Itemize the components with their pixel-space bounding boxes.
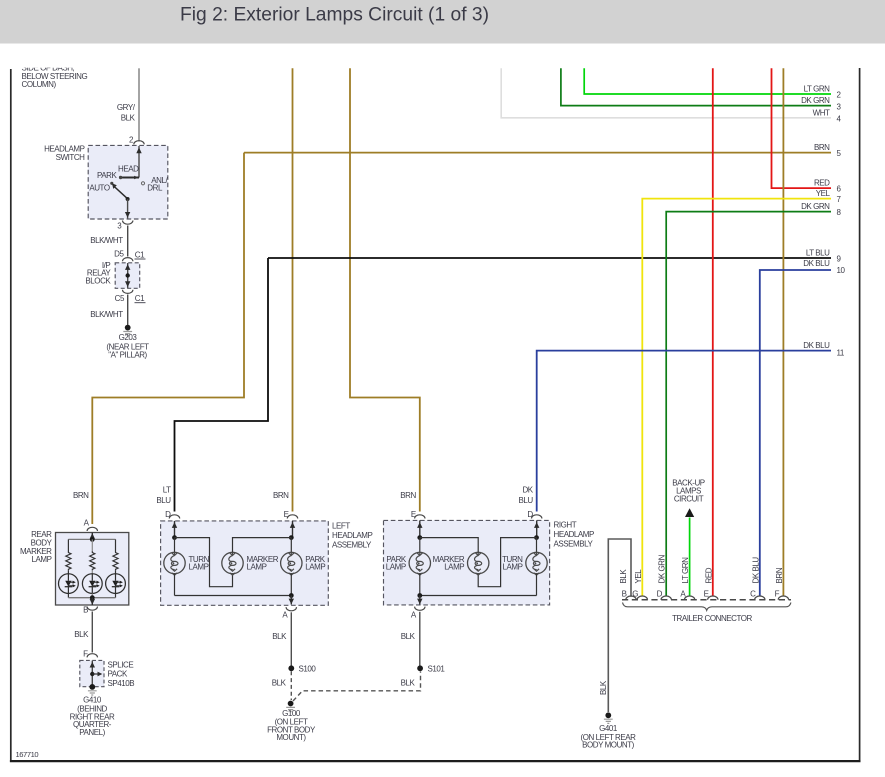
svg-text:DK BLU: DK BLU (803, 341, 830, 350)
wire dashed ground link G100 to S101 (293, 672, 421, 702)
wire marker top to park junction (233, 538, 292, 553)
trailer pin G arc (637, 596, 647, 600)
arrow to back-up lamps circuit (685, 508, 694, 517)
svg-text:DK BLU: DK BLU (803, 259, 830, 268)
svg-text:LAMP: LAMP (305, 563, 325, 572)
splice junction dot with arrow (90, 672, 94, 676)
svg-text:BLOCK: BLOCK (85, 276, 111, 285)
pin 2 connector arc (134, 141, 144, 145)
svg-text:HEAD: HEAD (118, 164, 139, 173)
svg-text:BLK: BLK (619, 569, 628, 584)
svg-text:SP410B: SP410B (108, 679, 135, 688)
svg-text:ASSEMBLY: ASSEMBLY (332, 540, 372, 549)
left headlamp assembly box (161, 521, 329, 605)
svg-text:DK GRN: DK GRN (658, 554, 667, 583)
junction dot park feed (417, 535, 422, 540)
svg-text:BRN: BRN (775, 567, 784, 583)
AUTO contact dot (110, 182, 113, 185)
svg-text:LT BLU: LT BLU (806, 249, 830, 258)
svg-text:ASSEMBLY: ASSEMBLY (554, 539, 594, 548)
svg-text:BRN: BRN (814, 143, 830, 152)
svg-text:Fig 2: Exterior Lamps Circuit: Fig 2: Exterior Lamps Circuit (1 of 3) (180, 4, 489, 25)
marker lamp bulb (222, 552, 243, 575)
wire RED circuit 6 (772, 68, 832, 188)
pin E connector arc (415, 515, 425, 519)
pin D connector arc (169, 515, 179, 519)
wire LT BLU to left headlamp D (175, 258, 269, 512)
svg-text:BLK: BLK (599, 680, 608, 695)
arrow down at pin 3 (125, 212, 130, 218)
wire BRN circuit 5 horizontal (244, 152, 831, 154)
svg-text:RED: RED (814, 179, 830, 188)
svg-text:BLK: BLK (272, 679, 287, 688)
svg-text:TRAILER CONNECTOR: TRAILER CONNECTOR (672, 614, 752, 623)
svg-text:PARK: PARK (97, 171, 118, 180)
splice pack internal wire (91, 661, 93, 687)
wire BLK to S100 (290, 612, 292, 668)
svg-text:C5: C5 (115, 294, 125, 303)
ground G410 (88, 684, 97, 695)
svg-text:S100: S100 (299, 664, 317, 673)
arrow up inside splice pack (90, 662, 95, 668)
trailer pin A arc (684, 596, 694, 600)
top bus (68, 538, 115, 540)
wire park lamp branch (290, 538, 292, 553)
svg-text:D: D (527, 510, 533, 519)
resistor right (113, 551, 118, 570)
note (on left side of dash, below steering column) clipped first line (22, 63, 88, 89)
junction dot turn feed (172, 535, 177, 540)
title bar (0, 0, 885, 44)
svg-text:DK: DK (522, 486, 533, 495)
bottom bus (420, 595, 537, 597)
wire BLK to splice pack (91, 612, 93, 653)
junction dot ground bus (417, 593, 422, 598)
wire BLK dashed S100 to G100 (290, 671, 292, 700)
svg-text:D5: D5 (114, 250, 124, 259)
bottom bus (68, 597, 115, 599)
svg-text:COLUMN): COLUMN) (22, 80, 57, 89)
pin A entry wire and arrow (91, 533, 93, 540)
bottom bus (175, 595, 292, 597)
trailer pin C arc (755, 596, 765, 600)
svg-text:LEFT: LEFT (332, 521, 350, 530)
diagram frame bottom border (10, 760, 861, 762)
svg-text:G: G (632, 590, 638, 599)
wire turn lamp branch (536, 538, 538, 553)
svg-text:BLK: BLK (121, 114, 136, 123)
svg-text:D: D (657, 590, 663, 599)
ground G203 (123, 325, 132, 336)
svg-text:LAMP: LAMP (444, 563, 464, 572)
wire LT GRN circuit 2 (584, 68, 831, 94)
wire BRN to rear body marker lamp (92, 153, 244, 524)
svg-text:SWITCH: SWITCH (56, 153, 86, 162)
wire BRN to right headlamp E (350, 68, 420, 511)
svg-text:C1: C1 (135, 294, 145, 303)
wire BLK/WHT switch to relay block (127, 226, 129, 257)
svg-text:SPLICE: SPLICE (108, 661, 134, 670)
LED left (59, 574, 79, 594)
pin A exit wire and arrow (290, 596, 292, 605)
diagram frame right border (859, 68, 861, 762)
left branch wire (67, 539, 69, 573)
wire DK BLU circuit 10 to trailer pin C (760, 270, 831, 597)
svg-text:LT GRN: LT GRN (681, 557, 690, 584)
middle branch wire (91, 539, 93, 573)
park lamp bulb (409, 552, 430, 575)
svg-text:DK GRN: DK GRN (801, 202, 830, 211)
pin B exit wire and arrow (91, 598, 93, 605)
pin B connector arc (87, 607, 97, 611)
wire YEL circuit 7 to trailer pin G (642, 199, 831, 597)
wire turn lamp branch (174, 538, 176, 553)
svg-text:BRN: BRN (400, 491, 416, 500)
junction dot node A1 (90, 537, 95, 542)
pin C5 connector arc (123, 290, 133, 294)
ANL/DRL contact dot (141, 182, 144, 185)
svg-text:BRN: BRN (73, 491, 89, 500)
turn lamp bulb (526, 552, 547, 575)
ground G401 (604, 712, 613, 723)
svg-text:RIGHT: RIGHT (554, 520, 577, 529)
pin E entry wire and arrow (292, 521, 294, 538)
pin 3 connector arc (123, 221, 133, 225)
svg-text:CIRCUIT: CIRCUIT (674, 495, 704, 504)
I/P relay block box (115, 263, 140, 289)
svg-text:BLK: BLK (401, 679, 416, 688)
svg-text:D: D (165, 510, 171, 519)
junction dot in relay block (126, 273, 130, 277)
pin D entry wire and arrow (174, 521, 176, 538)
svg-text:DRL: DRL (147, 184, 163, 193)
svg-text:LAMP: LAMP (247, 563, 267, 572)
pin E entry wire and arrow (419, 520, 421, 537)
junction dot turn feed (534, 535, 539, 540)
svg-text:"A" PILLAR): "A" PILLAR) (108, 350, 147, 359)
wire to pin 3 (127, 199, 129, 219)
svg-text:BLK: BLK (272, 632, 287, 641)
svg-text:B: B (622, 590, 627, 599)
headlamp switch box (88, 145, 168, 219)
junction dot park feed (289, 535, 294, 540)
svg-text:YEL: YEL (816, 189, 831, 198)
splice S100 (288, 665, 294, 671)
trailer connector dashed line (622, 599, 791, 601)
trailer pin F arc (778, 596, 788, 600)
svg-text:C1: C1 (135, 250, 145, 259)
svg-text:LAMP: LAMP (32, 555, 52, 564)
relay block internal wire (127, 263, 129, 288)
svg-text:HEADLAMP: HEADLAMP (44, 144, 85, 153)
svg-text:LAMP: LAMP (503, 563, 523, 572)
junction dot node B1 (90, 595, 95, 600)
pin D connector arc (532, 515, 542, 519)
svg-text:BLK/WHT: BLK/WHT (90, 310, 123, 319)
svg-text:LAMP: LAMP (386, 563, 406, 572)
wire BLK to S101 (419, 612, 421, 669)
svg-text:BLU: BLU (156, 496, 171, 505)
svg-text:BLK: BLK (74, 630, 89, 639)
pin E connector arc (287, 515, 297, 519)
resistor left (66, 551, 71, 570)
pin A exit wire and arrow (419, 596, 421, 605)
svg-text:C: C (750, 590, 756, 599)
wire park lamp branch (419, 538, 421, 553)
LED middle (82, 574, 102, 594)
headlamp switch internal wire from pin 2 (138, 146, 140, 178)
svg-text:GRY/: GRY/ (117, 103, 136, 112)
svg-text:LAMP: LAMP (189, 563, 209, 572)
pin A connector arc (415, 607, 425, 611)
svg-text:MOUNT): MOUNT) (276, 733, 306, 742)
pin F connector arc (87, 654, 97, 658)
svg-text:BLK/WHT: BLK/WHT (90, 236, 123, 245)
svg-text:AUTO: AUTO (89, 184, 110, 193)
svg-text:10: 10 (837, 266, 846, 275)
wire DK BLU circuit 11 to right headlamp D (537, 351, 831, 512)
pin A connector arc (87, 527, 97, 531)
trailer pin B arc (626, 596, 636, 600)
svg-text:S101: S101 (428, 664, 446, 673)
PARK contact dot (119, 176, 122, 179)
svg-text:BLK: BLK (401, 632, 416, 641)
wire BLK/WHT relay to ground (127, 295, 129, 326)
pin D entry wire and arrow (536, 520, 538, 537)
svg-text:BODY MOUNT): BODY MOUNT) (582, 741, 635, 750)
svg-text:E: E (704, 590, 709, 599)
wire LT GRN back-up lamps to trailer pin A (689, 518, 691, 597)
svg-text:BRN: BRN (273, 491, 289, 500)
svg-text:167710: 167710 (16, 750, 39, 759)
svg-text:YEL: YEL (634, 569, 643, 584)
wire BRN to trailer pin F (782, 68, 784, 596)
right headlamp assembly box (384, 520, 550, 605)
lever pivot dot (126, 197, 130, 201)
svg-text:G410: G410 (83, 695, 102, 704)
park lamp bulb (281, 552, 302, 575)
wire RED to trailer pin E (712, 68, 714, 596)
marker lamp bulb (468, 552, 489, 575)
svg-text:G203: G203 (119, 333, 138, 342)
svg-text:HEADLAMP: HEADLAMP (332, 531, 373, 540)
svg-text:11: 11 (837, 349, 845, 358)
wire BRN to left headlamp E (292, 68, 294, 511)
switch PARK contact segment (121, 177, 139, 179)
wire BLK trailer pin B to G401 (608, 539, 631, 712)
pin A connector arc (286, 607, 296, 611)
wire LT BLU circuit 9 horizontal (268, 257, 831, 259)
trailer pin D arc (661, 596, 671, 600)
turn lamp bulb (164, 552, 185, 575)
LED right (106, 574, 126, 594)
svg-text:F: F (775, 590, 780, 599)
splice pack SP410B box (80, 660, 104, 686)
svg-text:DK GRN: DK GRN (801, 96, 830, 105)
svg-text:G100: G100 (282, 709, 301, 718)
svg-text:BLU: BLU (518, 496, 533, 505)
wire marker loop from D junction (478, 538, 536, 587)
svg-text:G401: G401 (599, 724, 618, 733)
svg-text:WHT: WHT (813, 108, 830, 117)
right branch wire (115, 539, 117, 573)
splice S101 (417, 665, 423, 671)
svg-text:HEADLAMP: HEADLAMP (554, 530, 595, 539)
junction dot ground bus (289, 593, 294, 598)
trailer pin E arc (708, 596, 718, 600)
wire WHT circuit 4 (501, 68, 831, 118)
rear body marker lamp box (56, 533, 129, 606)
svg-text:LT: LT (163, 486, 171, 495)
wire DK GRN circuit 8 to trailer pin D (666, 212, 831, 597)
trailer connector brace (623, 603, 791, 611)
wire marker loop from D junction (175, 538, 233, 587)
svg-text:B: B (83, 606, 88, 615)
arrow up inside relay block (125, 264, 130, 270)
svg-text:LT GRN: LT GRN (804, 85, 831, 94)
svg-text:PACK: PACK (108, 670, 129, 679)
arrow up at pin 2 (136, 147, 141, 153)
arrow down inside relay block (125, 281, 130, 287)
resistor middle (90, 551, 95, 570)
svg-text:RED: RED (704, 567, 713, 583)
wire GRY/BLK from top (138, 68, 140, 141)
svg-text:PANEL): PANEL) (79, 728, 105, 737)
ground G100 (286, 701, 295, 712)
wire DK GRN circuit 3 (561, 68, 831, 105)
wire marker top to park junction (420, 538, 478, 553)
diagram frame left border (10, 69, 12, 762)
switch lever (114, 187, 127, 199)
svg-text:DK BLU: DK BLU (751, 557, 760, 584)
pin D5 connector arc (123, 258, 133, 262)
